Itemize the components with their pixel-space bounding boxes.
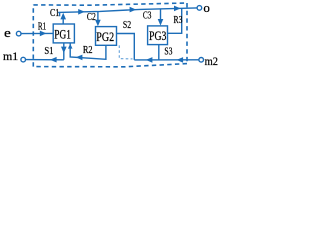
node m2 terminal circle: [199, 58, 204, 63]
wire: S3 drop from PG3 bottom to m2 line: [158, 45, 160, 60]
svg-text:o: o: [203, 0, 210, 15]
arrow up at top of C1 riser: [60, 13, 66, 20]
dashed boundary: bottom edge: [33, 64, 187, 67]
wire: R2 feedback from PG2 bottom to PG1 bottom: [70, 43, 106, 59]
wire: m2 line from circle to S2 corner: [134, 59, 199, 61]
arrow toward m1: [50, 57, 57, 63]
svg-text:m1: m1: [3, 49, 18, 63]
node o terminal circle: [197, 6, 202, 11]
wire: C1 riser from PG1 top: [62, 17, 64, 24]
svg-text:PG3: PG3: [149, 28, 166, 43]
svg-text:R3: R3: [174, 15, 183, 26]
wire: S2 path from m2 line up into PG2 right: [117, 34, 135, 60]
svg-text:C2: C2: [87, 12, 96, 23]
arrow left on R2 line: [76, 55, 83, 61]
svg-text:C1: C1: [50, 8, 59, 19]
svg-text:C3: C3: [143, 10, 152, 21]
dashed boundary box: [33, 3, 187, 5]
box PG3: [148, 26, 168, 45]
svg-text:m2: m2: [205, 54, 218, 68]
node e terminal circle: [16, 31, 21, 36]
wire: C2 drop into PG2 top: [97, 12, 99, 22]
arrow on top line (mid, x=135): [130, 7, 137, 13]
svg-text:S3: S3: [164, 46, 172, 57]
dashed boundary: left edge: [32, 5, 34, 67]
wire: S1 drop from PG1 bottom: [63, 43, 65, 60]
dashed boundary: right edge: [186, 3, 188, 64]
box PG1: [53, 24, 74, 43]
svg-text:S2: S2: [123, 20, 131, 31]
arrow on top line (before border exit, x=179): [174, 6, 181, 12]
arrow left on m2 line (x=145): [146, 57, 153, 63]
arrow into PG1 left: [40, 31, 47, 37]
wire: C3 drop into PG3 top: [160, 9, 162, 21]
arrow down into PG3 top: [158, 19, 164, 26]
wire: e input line into PG1: [21, 32, 53, 34]
arrow down into PG2 top: [95, 20, 101, 27]
node m1 terminal circle: [21, 57, 26, 62]
svg-text:R1: R1: [38, 21, 46, 32]
arrow on top line (mid, x=84): [78, 9, 85, 15]
wire: top solid line from PG1 area to output o: [58, 8, 197, 12]
svg-text:e: e: [4, 25, 11, 40]
wire: R3 feedback from top line down to PG3 right: [168, 8, 182, 33]
arrow left on m2 line (x=177): [177, 57, 184, 63]
svg-text:R2: R2: [83, 45, 93, 56]
wire: dashed link from PG2 bottom to S2 node: [119, 45, 132, 59]
svg-text:S1: S1: [44, 46, 53, 57]
svg-text:PG1: PG1: [54, 26, 71, 41]
wire: m1 line to S1 junction: [26, 59, 64, 61]
box PG2: [96, 27, 117, 46]
arrow down on S1 drop: [61, 47, 67, 54]
svg-text:PG2: PG2: [96, 29, 114, 44]
arrow up into PG1 bottom: [68, 44, 73, 49]
wire: small stub at left end of top line: [59, 12, 61, 16]
